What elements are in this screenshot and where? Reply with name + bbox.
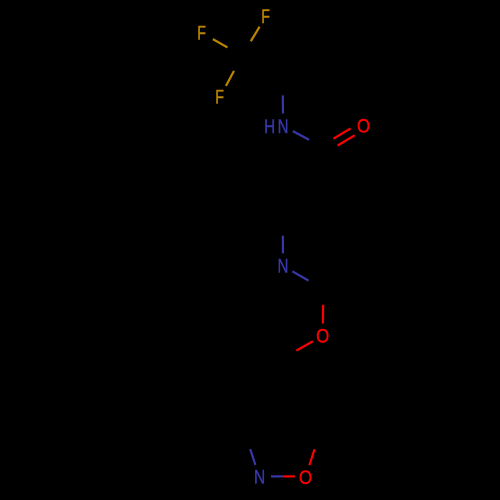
svg-text:O: O [299, 466, 312, 489]
amide C=O double bond line 1 (O half) [333, 128, 350, 138]
ether bond O-CH2 (O half) [296, 341, 312, 350]
svg-text:F: F [215, 85, 224, 108]
bond C1-F1 (F half) [251, 27, 260, 42]
svg-text:N: N [278, 115, 289, 137]
bond NH-C(=O) (N half) [293, 131, 309, 140]
svg-text:F: F [261, 4, 270, 27]
svg-text:H: H [264, 115, 275, 137]
pyridine bond C2-N1 (N half) [282, 236, 284, 254]
svg-text:N: N [254, 466, 265, 488]
ether bond C6-O (O half) [322, 305, 324, 324]
bond CH2-NH (N half) [282, 95, 284, 113]
isoxazole bond C3=N2 (N half) [250, 449, 255, 465]
svg-text:O: O [357, 114, 370, 137]
svg-text:O: O [316, 324, 329, 347]
isoxazole bond N2-O1 (N half) [271, 475, 283, 477]
isoxazole bond N2-O1 (O half) [283, 475, 295, 477]
pyridine bond N1-C6 (N half) [292, 271, 308, 280]
svg-text:F: F [197, 21, 206, 44]
bond C1-F2 (F half) [213, 39, 228, 47]
bond C1-F3 (F half) [226, 71, 234, 86]
isoxazole bond O1-C5 (O half) [309, 449, 314, 465]
amide C=O double bond line 2 (O half) [338, 135, 355, 145]
svg-text:N: N [278, 255, 289, 277]
